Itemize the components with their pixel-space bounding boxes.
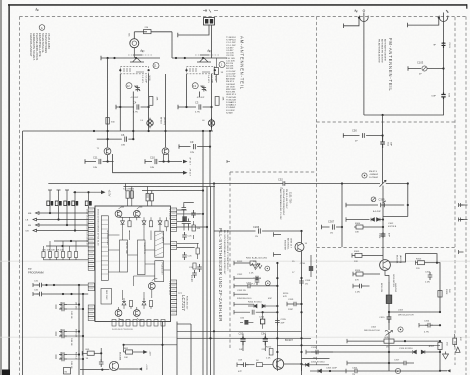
svg-text:C9: C9	[190, 140, 194, 144]
coil pack L1	[120, 67, 148, 74]
wire dipole left feed	[344, 18, 360, 28]
svg-text:R204 KV1310: R204 KV1310	[248, 302, 262, 304]
capacitor C207	[245, 283, 279, 289]
wire bottom right out	[440, 350, 447, 371]
svg-text:39P: 39P	[390, 142, 392, 146]
scan artifact line 1	[0, 260, 470, 263]
wire branch x342	[341, 184, 343, 248]
capacitor C209	[287, 299, 303, 311]
capacitor C25	[182, 232, 192, 240]
arrow +5.3V	[101, 190, 106, 194]
resistor R313	[416, 259, 438, 271]
svg-text:L304: L304	[371, 327, 377, 329]
capacitor C3	[178, 104, 210, 109]
svg-text:LATCH 16B: LATCH 16B	[125, 242, 128, 254]
svg-text:C209: C209	[288, 299, 294, 301]
svg-text:A: A	[41, 26, 43, 30]
svg-text:10K: 10K	[197, 228, 201, 230]
svg-text:VS 20.1.1984: VS 20.1.1984	[47, 33, 51, 49]
capacitor C101	[433, 42, 450, 49]
svg-text:PHASE DET: PHASE DET	[161, 263, 164, 276]
IC left lower pins	[88, 283, 94, 321]
svg-text:FM-ANTENNEN-TEIL: FM-ANTENNEN-TEIL	[388, 38, 393, 92]
svg-text:BC548B: BC548B	[119, 352, 121, 361]
svg-text:ZF 10.7: ZF 10.7	[189, 169, 191, 177]
wire osc collector loop	[390, 254, 438, 263]
IC internal transistor Q-a	[115, 210, 122, 217]
svg-text:FM 98.2-118.7 MHZ: FM 98.2-118.7 MHZ	[285, 189, 287, 209]
resistor R318 margin	[453, 334, 461, 347]
wire out y338.3	[177, 337, 311, 339]
svg-text:PLL SYNTHETISEUR ET COMPTEUR F: PLL SYNTHETISEUR ET COMPTEUR FI	[226, 230, 228, 271]
svg-text:47P: 47P	[238, 371, 242, 373]
coil pack L2	[187, 67, 215, 74]
transistor T2a	[197, 55, 211, 62]
svg-text:ZF-ZAEHL: ZF-ZAEHL	[162, 233, 165, 244]
wires stage1 verticals	[108, 58, 149, 147]
svg-text:UB: UB	[26, 231, 30, 233]
svg-text:L4 10.5: L4 10.5	[207, 76, 209, 84]
svg-text:4.7N: 4.7N	[424, 332, 429, 334]
band select group MW	[56, 329, 84, 346]
outer dashed border left	[19, 17, 21, 375]
stub AM row 6	[234, 310, 277, 315]
svg-text:R210: R210	[283, 293, 289, 295]
svg-text:UKW 10.7: UKW 10.7	[290, 238, 292, 249]
svg-text:TP:: TP:	[28, 267, 32, 271]
input line 1	[36, 212, 89, 215]
svg-text:AM-ANTENNEN-TEIL: AM-ANTENNEN-TEIL	[240, 36, 245, 90]
svg-text:LW 153: LW 153	[75, 302, 77, 310]
pin circle 11	[153, 63, 159, 69]
svg-text:1 2 3 4 5 6: 1 2 3 4 5 6	[168, 209, 170, 220]
svg-text:-108MHZ: -108MHZ	[369, 174, 379, 176]
trimmer inductor stage1	[141, 118, 154, 128]
diode D303	[302, 362, 330, 367]
resistor R5	[106, 118, 116, 125]
resistor R62	[124, 345, 144, 359]
PLL section label	[218, 228, 228, 322]
wire right antenna down-lead	[443, 22, 445, 93]
wire xtal bottoms to IC	[128, 198, 152, 206]
diode D13	[65, 190, 69, 201]
transistor type label	[160, 117, 165, 125]
capacitor C27	[191, 210, 201, 218]
resistor R4	[215, 97, 219, 106]
IC internal transistor Q-e	[133, 310, 140, 317]
capacitor C304	[346, 368, 370, 375]
capacitor C306	[322, 220, 343, 235]
svg-text:D2 AA113: D2 AA113	[226, 104, 236, 107]
capacitor C202	[253, 276, 261, 281]
wire section box top	[124, 186, 216, 188]
wire T5 collector out	[119, 364, 147, 371]
section divider dashed vertical AM/FM	[316, 17, 318, 366]
svg-text:10N: 10N	[93, 167, 97, 169]
band select group LW	[56, 302, 84, 319]
svg-text:C50: C50	[352, 129, 357, 133]
svg-text:+12V: +12V	[149, 351, 151, 357]
svg-text:C208: C208	[305, 280, 311, 282]
svg-text:1N: 1N	[330, 233, 333, 235]
IC internal transistor Q-b	[133, 210, 140, 217]
svg-text:D1 AA113: D1 AA113	[226, 101, 236, 104]
svg-text:REF OSC: REF OSC	[105, 290, 107, 300]
+5.3V supply rail diode row	[47, 190, 112, 206]
capacitor C21	[182, 205, 187, 213]
margin stub 4	[461, 203, 468, 222]
svg-text:L3 10.5: L3 10.5	[141, 76, 143, 84]
capacitor C99	[432, 93, 450, 100]
wire stage2 collector rail	[172, 57, 227, 59]
wire left antenna down-lead	[363, 22, 365, 116]
svg-text:MISCHER: MISCHER	[284, 240, 286, 251]
wire to stage 2 top	[171, 32, 173, 58]
IC shift register block	[101, 216, 108, 280]
svg-text:+3.0V: +3.0V	[145, 364, 147, 370]
mixer stage label	[284, 238, 292, 251]
svg-text:SCHIEBE-REG: SCHIEBE-REG	[106, 230, 108, 245]
bus vertical 4	[213, 184, 215, 375]
svg-text:FM-ANTENNA 240OHM: FM-ANTENNA 240OHM	[378, 39, 381, 63]
wire T5 emitter row	[80, 369, 109, 371]
wire antenna joining bus	[364, 100, 444, 116]
svg-text:R317: R317	[429, 346, 435, 348]
svg-text:47K: 47K	[283, 296, 287, 298]
bus vertical 2	[206, 187, 208, 375]
svg-text:10.7MHZ: 10.7MHZ	[369, 177, 379, 179]
wire down from junction	[382, 115, 384, 136]
svg-text:D0 D1 D2 D3 D4 D5 D6 D7 CE CL: D0 D1 D2 D3 D4 D5 D6 D7 CE CL DI	[97, 209, 99, 246]
svg-text:ZF 10.7: ZF 10.7	[189, 157, 191, 165]
svg-text:6.8P: 6.8P	[432, 96, 437, 98]
AM row labels	[237, 261, 295, 300]
svg-text:ABSTIMMSPANNUNG 0.5-28V: ABSTIMMSPANNUNG 0.5-28V	[279, 189, 282, 220]
capacitor C55	[240, 318, 253, 325]
oscillator transistor T301	[380, 255, 402, 270]
svg-text:R212: R212	[266, 347, 272, 349]
resistor R23	[192, 221, 201, 239]
svg-text:C11: C11	[93, 155, 98, 159]
svg-text:R203: R203	[237, 261, 243, 263]
outer dashed border right	[465, 17, 467, 375]
svg-text:C42 1N: C42 1N	[70, 311, 72, 319]
connector box 86	[64, 368, 71, 375]
svg-text:LC7217: LC7217	[181, 295, 186, 311]
resistor R3	[149, 97, 153, 106]
component C210	[300, 255, 313, 277]
wire out y324	[177, 323, 191, 325]
margin stub 2	[459, 218, 464, 222]
IC bottom pin row	[112, 320, 165, 332]
svg-text:L303: L303	[398, 310, 404, 312]
svg-text:1131-730-: 1131-730-	[289, 192, 293, 204]
svg-text:18K: 18K	[156, 97, 158, 101]
svg-text:2.2K: 2.2K	[266, 358, 271, 360]
decoupling capacitor column right of IC	[182, 205, 197, 283]
diodes D301 D302	[346, 217, 397, 228]
pin circle 1	[219, 62, 225, 68]
variable coil L304	[364, 323, 393, 336]
wire T1 emitter out	[108, 154, 184, 173]
PROGRAM label	[28, 267, 44, 275]
svg-text:22K: 22K	[354, 261, 358, 263]
test point A	[395, 368, 400, 373]
svg-text:OSZILLATOR-FREQUENZ: OSZILLATOR-FREQUENZ	[282, 189, 285, 216]
left border line	[8, 4, 9, 375]
registration mark top 4	[446, 10, 448, 13]
FM box dashed bottom	[317, 121, 456, 123]
margin stub 3	[459, 250, 464, 254]
filter F1	[146, 194, 153, 201]
svg-text:+5.3V: +5.3V	[108, 190, 112, 197]
diode D11	[48, 190, 52, 201]
svg-text:C103: C103	[417, 61, 424, 65]
pin circle 12	[126, 83, 132, 89]
transistor T5	[109, 352, 120, 371]
wire L304 down	[388, 334, 390, 372]
resistor R1	[134, 27, 172, 34]
wire x210 drop	[209, 131, 211, 187]
dashed horizontal mid right	[317, 247, 456, 249]
transistor T203	[273, 338, 294, 369]
wire osc out	[277, 358, 301, 364]
svg-text:FM:87.5: FM:87.5	[369, 171, 378, 173]
test point circle TP	[398, 327, 403, 332]
IC right pin column	[171, 208, 177, 315]
wire mixer down	[301, 252, 303, 375]
bus vertical 3	[210, 187, 212, 375]
left section box edge	[22, 131, 24, 375]
svg-text:C304: C304	[352, 368, 358, 370]
svg-text:(BF450): (BF450)	[163, 117, 165, 125]
svg-text:4.7N: 4.7N	[133, 112, 138, 114]
junction	[382, 134, 384, 136]
IC latch block	[120, 240, 129, 272]
svg-text:C204: C204	[259, 317, 265, 319]
dashed vertical at x230	[229, 172, 231, 350]
registration mark top 1	[35, 8, 39, 11]
wire dipole right feed	[408, 18, 439, 28]
IC left pin column	[88, 208, 94, 270]
capacitor C65	[99, 359, 104, 367]
svg-text:7N: 7N	[280, 188, 283, 190]
svg-text:AM 460K: AM 460K	[226, 78, 236, 81]
svg-text:C6: C6	[121, 133, 125, 137]
resistor R308	[438, 289, 450, 297]
svg-text:D203 KV1310: D203 KV1310	[311, 362, 325, 364]
IC U1 body	[95, 206, 171, 322]
component list text column	[226, 37, 237, 114]
capacitor C51	[380, 136, 391, 149]
wire mixer feed	[301, 231, 303, 243]
IC part number LC7217	[178, 293, 188, 311]
diode D14	[74, 192, 76, 201]
svg-text:28 27 26 25 24 23 22 21 20 19: 28 27 26 25 24 23 22 21 20 19 18 17	[86, 209, 88, 246]
svg-text:C44 1N: C44 1N	[70, 338, 72, 346]
svg-text:R311: R311	[385, 337, 391, 339]
IC internal diode row bottom	[122, 298, 153, 309]
keyboard matrix input lines	[26, 212, 89, 233]
FM antenna note text	[378, 39, 387, 63]
wire L302 out	[389, 304, 440, 313]
svg-text:MB: MB	[28, 213, 32, 215]
svg-text:220P: 220P	[288, 309, 294, 311]
variable capacitor C103	[408, 61, 444, 76]
capacitor C11	[85, 155, 114, 169]
crystal X1	[123, 189, 135, 199]
svg-text:DRO16-047 UH: DRO16-047 UH	[364, 330, 380, 332]
svg-text:C207: C207	[246, 283, 252, 285]
connector X1	[204, 18, 215, 26]
svg-text:10K: 10K	[355, 232, 359, 234]
svg-text:R308: R308	[445, 289, 447, 295]
input line 4	[33, 229, 88, 232]
IC internal transistor Q-d	[115, 310, 122, 317]
capacitor C26	[182, 252, 192, 260]
svg-text:C41 1N: C41 1N	[59, 302, 61, 310]
svg-text:10K: 10K	[124, 357, 128, 359]
IC phase det block	[155, 261, 164, 282]
diode D15	[88, 192, 90, 201]
svg-text:BF324: BF324	[160, 117, 162, 124]
band bus vertical A	[78, 285, 80, 375]
coil L302	[380, 282, 397, 304]
trimmer capacitor C1	[201, 86, 206, 92]
tuning potentiometer R201	[246, 257, 270, 275]
wire xtal feeds	[126, 184, 152, 194]
drawing note symbol	[39, 25, 45, 31]
diode D304	[310, 368, 347, 373]
wire connector to stage2	[178, 25, 209, 37]
test point circle	[362, 171, 379, 179]
bottom-left corner blob	[2, 370, 10, 375]
resistor R203	[250, 261, 256, 265]
resistor R21	[193, 263, 196, 269]
svg-text:SO31 BC301: SO31 BC301	[392, 274, 394, 288]
wire branch vertical	[276, 263, 278, 358]
input line 2	[33, 218, 88, 221]
svg-text:W 96: W 96	[214, 76, 216, 82]
svg-text:KOB-360-017: KOB-360-017	[186, 296, 188, 310]
junction	[341, 226, 343, 228]
clock line 1 with RC	[33, 281, 88, 288]
oscillator transistor T201	[295, 243, 308, 252]
capacitor C4	[116, 104, 148, 109]
wire main rail y131	[23, 130, 213, 132]
output arrow 2	[183, 169, 191, 177]
row y341 with R311	[347, 337, 441, 349]
capacitor C23	[186, 219, 191, 227]
capacitor C311	[353, 284, 370, 294]
svg-text:7N: 7N	[313, 358, 316, 360]
svg-text:45P: 45P	[268, 298, 272, 300]
IC counter block hatched	[155, 231, 165, 257]
svg-text:C315: C315	[379, 317, 385, 319]
test point CP2	[250, 277, 270, 286]
svg-text:10N: 10N	[121, 145, 125, 147]
FM stage 1	[101, 48, 160, 148]
capacitor C10	[145, 155, 182, 169]
transistor T2	[162, 148, 169, 162]
transistor T1	[96, 148, 110, 155]
outer dashed border top	[20, 16, 467, 18]
svg-text:R201 B+A2-CD3-2K0: R201 B+A2-CD3-2K0	[246, 257, 268, 260]
electrolytic C64	[261, 332, 268, 351]
trimmer capacitor C2	[135, 86, 140, 92]
junction	[382, 114, 384, 116]
IC divider block	[138, 240, 146, 275]
bottom nested wire 2	[311, 351, 389, 353]
wire C59 C64 tails	[243, 334, 265, 351]
svg-text:7 8 9 10 11 12: 7 8 9 10 11 12	[168, 281, 170, 296]
svg-text:45P: 45P	[281, 323, 285, 325]
junction	[438, 17, 440, 19]
svg-text:C5 18P: C5 18P	[145, 76, 147, 84]
bus vertical 1	[202, 131, 204, 375]
IC pin numbers left	[86, 209, 99, 246]
left scan strip	[0, 0, 2, 375]
svg-text:C305: C305	[379, 198, 386, 202]
wire +5.3V feed	[73, 191, 101, 193]
svg-text:R316: R316	[355, 270, 361, 272]
wire connector drop	[211, 25, 213, 58]
diode D12	[57, 190, 61, 201]
resistor R316	[353, 270, 380, 282]
row y363 C317	[347, 360, 414, 366]
capacitor C204	[259, 312, 265, 329]
wire T5 base	[100, 348, 102, 361]
IC osc block	[101, 289, 112, 305]
svg-text:2.2N: 2.2N	[425, 282, 430, 284]
scan artifact line 2	[0, 336, 470, 339]
wire left stub column	[234, 261, 254, 307]
resistor R305	[352, 251, 383, 263]
svg-text:X1 4.5MHZ: X1 4.5MHZ	[123, 189, 135, 191]
svg-text:10K 10K 10K 10K 10K: 10K 10K 10K 10K 10K	[42, 250, 64, 252]
capacitor C52 on AM rail	[278, 177, 285, 190]
band bus vertical B	[82, 294, 84, 375]
wire x383 vertical	[382, 186, 384, 260]
svg-text:C101: C101	[448, 43, 450, 49]
registration mark top 2	[203, 9, 218, 13]
svg-text:C203 1N: C203 1N	[237, 290, 246, 292]
svg-text:4.5-20P: 4.5-20P	[197, 97, 205, 99]
wire osc top loop	[383, 184, 408, 217]
svg-text:10N: 10N	[150, 167, 154, 169]
inductor L21	[182, 216, 187, 221]
capacitor C205	[275, 318, 286, 326]
svg-text:C308: C308	[378, 233, 380, 239]
resistor R317	[429, 342, 448, 350]
wire right column down	[437, 263, 440, 312]
stub AM row 5	[234, 284, 245, 288]
top border line	[8, 4, 467, 6]
svg-text:PLL-SYNTHESIZER UND ZF-ZAEHLER: PLL-SYNTHESIZER UND ZF-ZAEHLER	[218, 228, 223, 322]
capacitor C313	[425, 272, 432, 284]
svg-text:C316 KV1310: C316 KV1310	[399, 348, 413, 350]
junction	[300, 230, 302, 232]
junction dots AM grid	[276, 277, 278, 279]
svg-text:AM-OSZILL: AM-OSZILL	[287, 238, 290, 250]
registration mark top 3	[354, 10, 358, 13]
wire y190.5	[142, 190, 203, 192]
junction	[358, 17, 360, 19]
program resistor network	[42, 241, 88, 260]
wire down to coil	[382, 148, 384, 184]
svg-text:R304: R304	[355, 223, 361, 225]
resistor R22	[196, 243, 199, 259]
